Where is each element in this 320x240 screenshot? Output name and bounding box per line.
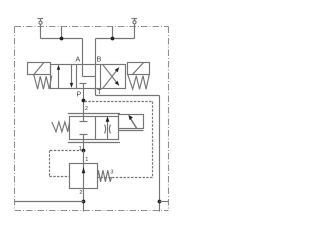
wire T channel horizontal xyxy=(96,95,160,97)
proportional solenoid xyxy=(119,115,144,131)
directional valve 4/3 body xyxy=(51,65,126,89)
svg-text:B: B xyxy=(97,57,102,64)
wire to relief valve xyxy=(83,151,85,164)
cell 3 crossed arrows xyxy=(103,65,119,88)
solenoid b (right) xyxy=(128,63,150,75)
node B junction xyxy=(111,37,115,41)
node bottom junction xyxy=(82,200,86,204)
svg-text:A: A xyxy=(75,56,80,63)
pilot bracket dashed (left) xyxy=(50,151,83,177)
svg-text:3: 3 xyxy=(110,170,113,176)
wire T stub to border xyxy=(160,201,169,203)
relief valve spring xyxy=(98,170,112,182)
node T bottom junction xyxy=(158,200,162,204)
pressure relief valve xyxy=(70,164,98,189)
test point MB (right) xyxy=(132,19,138,39)
enclosure border (dash-dot) xyxy=(15,27,169,211)
wire T channel right down xyxy=(159,96,161,212)
wire B down to valve xyxy=(95,39,97,65)
wire bottom to left border xyxy=(15,201,84,203)
pilot line dashed (P to relief spring) xyxy=(85,102,153,178)
test point MA (left) xyxy=(38,19,44,39)
spring left xyxy=(34,75,52,89)
wire B to enclosure top xyxy=(112,27,114,39)
svg-text:P: P xyxy=(76,92,81,99)
reducing valve spring xyxy=(52,122,70,132)
svg-text:1: 1 xyxy=(85,157,88,163)
svg-text:2: 2 xyxy=(79,190,82,196)
reducing valve flow arrow with throttle xyxy=(105,116,111,139)
spring right xyxy=(128,75,149,89)
svg-text:2: 2 xyxy=(85,106,88,112)
wire A to enclosure top xyxy=(61,27,63,39)
wire A down to valve xyxy=(82,39,84,65)
cell 1 parallel arrows xyxy=(57,65,73,89)
wire A top horizontal xyxy=(41,38,83,40)
cell 2 center position xyxy=(80,65,96,89)
solenoid a (left) xyxy=(28,63,51,75)
reducing valve blocked stubs xyxy=(80,122,88,151)
pressure reducing valve xyxy=(68,114,120,143)
node P junction xyxy=(82,99,86,103)
node pilot junction xyxy=(82,149,86,153)
wire P down xyxy=(83,89,85,122)
wire B top horizontal xyxy=(96,38,135,40)
wire T down xyxy=(95,89,97,96)
wire relief valve down xyxy=(83,189,85,212)
node A junction xyxy=(60,37,64,41)
